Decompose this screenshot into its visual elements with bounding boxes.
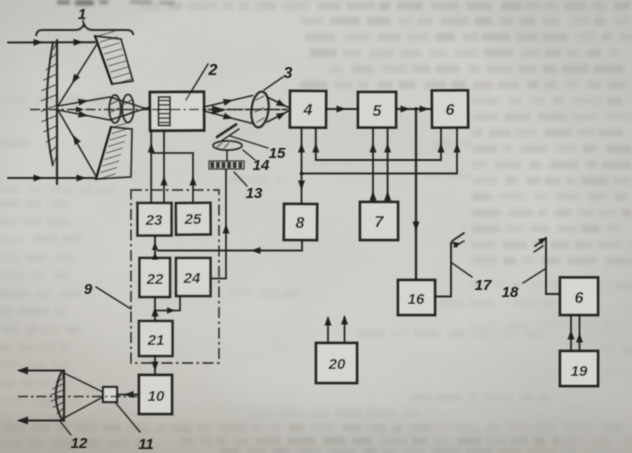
lens 14	[213, 141, 242, 150]
axis visible through block 2	[152, 109, 288, 111]
diverging rays after block 2	[204, 96, 253, 108]
svg-text:1: 1	[78, 6, 86, 23]
wire 8 to unit 9 column	[157, 240, 302, 251]
block 22	[140, 258, 171, 297]
block 21	[139, 321, 173, 356]
wire 21 to 10	[154, 356, 156, 375]
ray bottom	[8, 177, 95, 179]
feedback wire H2 to 6	[316, 128, 441, 161]
raster grating 13	[209, 161, 244, 169]
svg-text:10: 10	[148, 388, 165, 405]
svg-text:18: 18	[502, 284, 519, 301]
svg-text:2: 2	[208, 62, 218, 79]
primary mirror lower segment	[96, 127, 132, 179]
leader to label 9	[96, 287, 131, 309]
svg-text:23: 23	[145, 212, 163, 229]
svg-text:25: 25	[184, 211, 202, 228]
ray top	[8, 41, 95, 43]
feedback wire H3 to 6	[302, 128, 458, 174]
ray mirror-bottom to secondary	[58, 110, 96, 176]
axis bold arrow	[212, 106, 226, 115]
svg-text:6: 6	[446, 102, 455, 119]
branch 21 to 24	[155, 296, 180, 311]
svg-text:11: 11	[138, 436, 154, 453]
optical axis	[30, 109, 290, 111]
block 5	[358, 92, 396, 128]
brace for objective group 1	[36, 25, 134, 37]
leader to label 3	[264, 77, 283, 90]
leader 12	[60, 421, 71, 435]
beam splitter 15	[217, 125, 236, 138]
wire 4 right leg to H2	[315, 128, 317, 161]
svg-text:8: 8	[296, 215, 305, 232]
block 4	[290, 91, 326, 128]
svg-text:21: 21	[147, 332, 165, 349]
lens 12	[63, 371, 65, 421]
svg-text:20: 20	[328, 356, 346, 373]
relay lens group	[109, 95, 121, 123]
ray mirror-top to secondary	[58, 44, 97, 106]
svg-text:7: 7	[375, 214, 385, 231]
converging rays to block 4	[267, 97, 291, 109]
svg-text:9: 9	[84, 281, 93, 298]
leader to label 13	[234, 172, 247, 186]
emitter 11	[103, 387, 117, 402]
svg-text:12: 12	[71, 435, 88, 452]
svg-text:14: 14	[253, 157, 270, 174]
leader to label 14	[243, 150, 255, 160]
block 8	[284, 204, 317, 240]
wire 5 to 6	[396, 108, 432, 110]
block 6	[432, 90, 468, 127]
ray secondary to relay bottom	[58, 107, 150, 120]
leader 17	[452, 263, 472, 277]
wires block2 to 23 (two)	[150, 131, 152, 204]
wire 22 to 23 double arrows	[154, 236, 156, 259]
block 7	[360, 202, 398, 240]
block 24	[176, 258, 211, 296]
ray secondary to relay top	[58, 97, 150, 110]
output arrows of 20	[327, 318, 329, 343]
corrector hatching	[54, 43, 57, 49]
antenna 17	[435, 242, 451, 297]
svg-text:6: 6	[575, 290, 584, 307]
svg-text:13: 13	[246, 185, 263, 202]
svg-text:22: 22	[146, 271, 164, 288]
wires 7 up to 5	[372, 128, 374, 203]
wire 13 to 24	[212, 169, 227, 279]
svg-text:17: 17	[475, 277, 492, 294]
wire 14 to 13	[226, 150, 228, 161]
leader 18	[523, 269, 545, 283]
leader 11	[115, 402, 140, 432]
leader to label 2	[186, 64, 208, 100]
block 23	[138, 203, 172, 236]
corrector lens (meniscus)	[56, 40, 58, 184]
block 19	[560, 351, 598, 386]
wires 19 to 6	[570, 315, 572, 351]
block 6 right	[560, 278, 598, 316]
wire 21 to 22	[154, 297, 156, 321]
wire 10 to 11	[117, 394, 139, 396]
leader to label 15	[230, 136, 268, 148]
block 2 inner modulator bar	[159, 97, 171, 126]
antenna 18	[546, 237, 560, 294]
svg-text:15: 15	[269, 145, 286, 162]
axis bottom	[18, 396, 137, 398]
wire junction down to 16	[415, 109, 417, 280]
branch wire to 25	[151, 153, 193, 203]
svg-text:19: 19	[571, 363, 588, 380]
block 16	[398, 280, 435, 315]
svg-text:4: 4	[303, 102, 313, 119]
svg-text:5: 5	[373, 103, 383, 120]
rays 11 to lens 12	[64, 373, 103, 392]
output beams	[19, 370, 64, 372]
svg-text:24: 24	[183, 270, 201, 287]
junction node	[414, 107, 418, 111]
svg-text:16: 16	[408, 291, 425, 308]
dash-dot boundary of unit 9	[131, 190, 219, 363]
wire 4 down to 8	[301, 128, 303, 205]
lens 3	[249, 91, 270, 129]
block 20	[316, 343, 357, 383]
svg-text:3: 3	[284, 65, 293, 82]
primary mirror upper segment	[95, 36, 133, 84]
block 25	[176, 203, 211, 235]
block 10	[139, 375, 172, 414]
wire 4 to 5	[326, 108, 358, 110]
block 2 (photodetector)	[150, 92, 204, 131]
